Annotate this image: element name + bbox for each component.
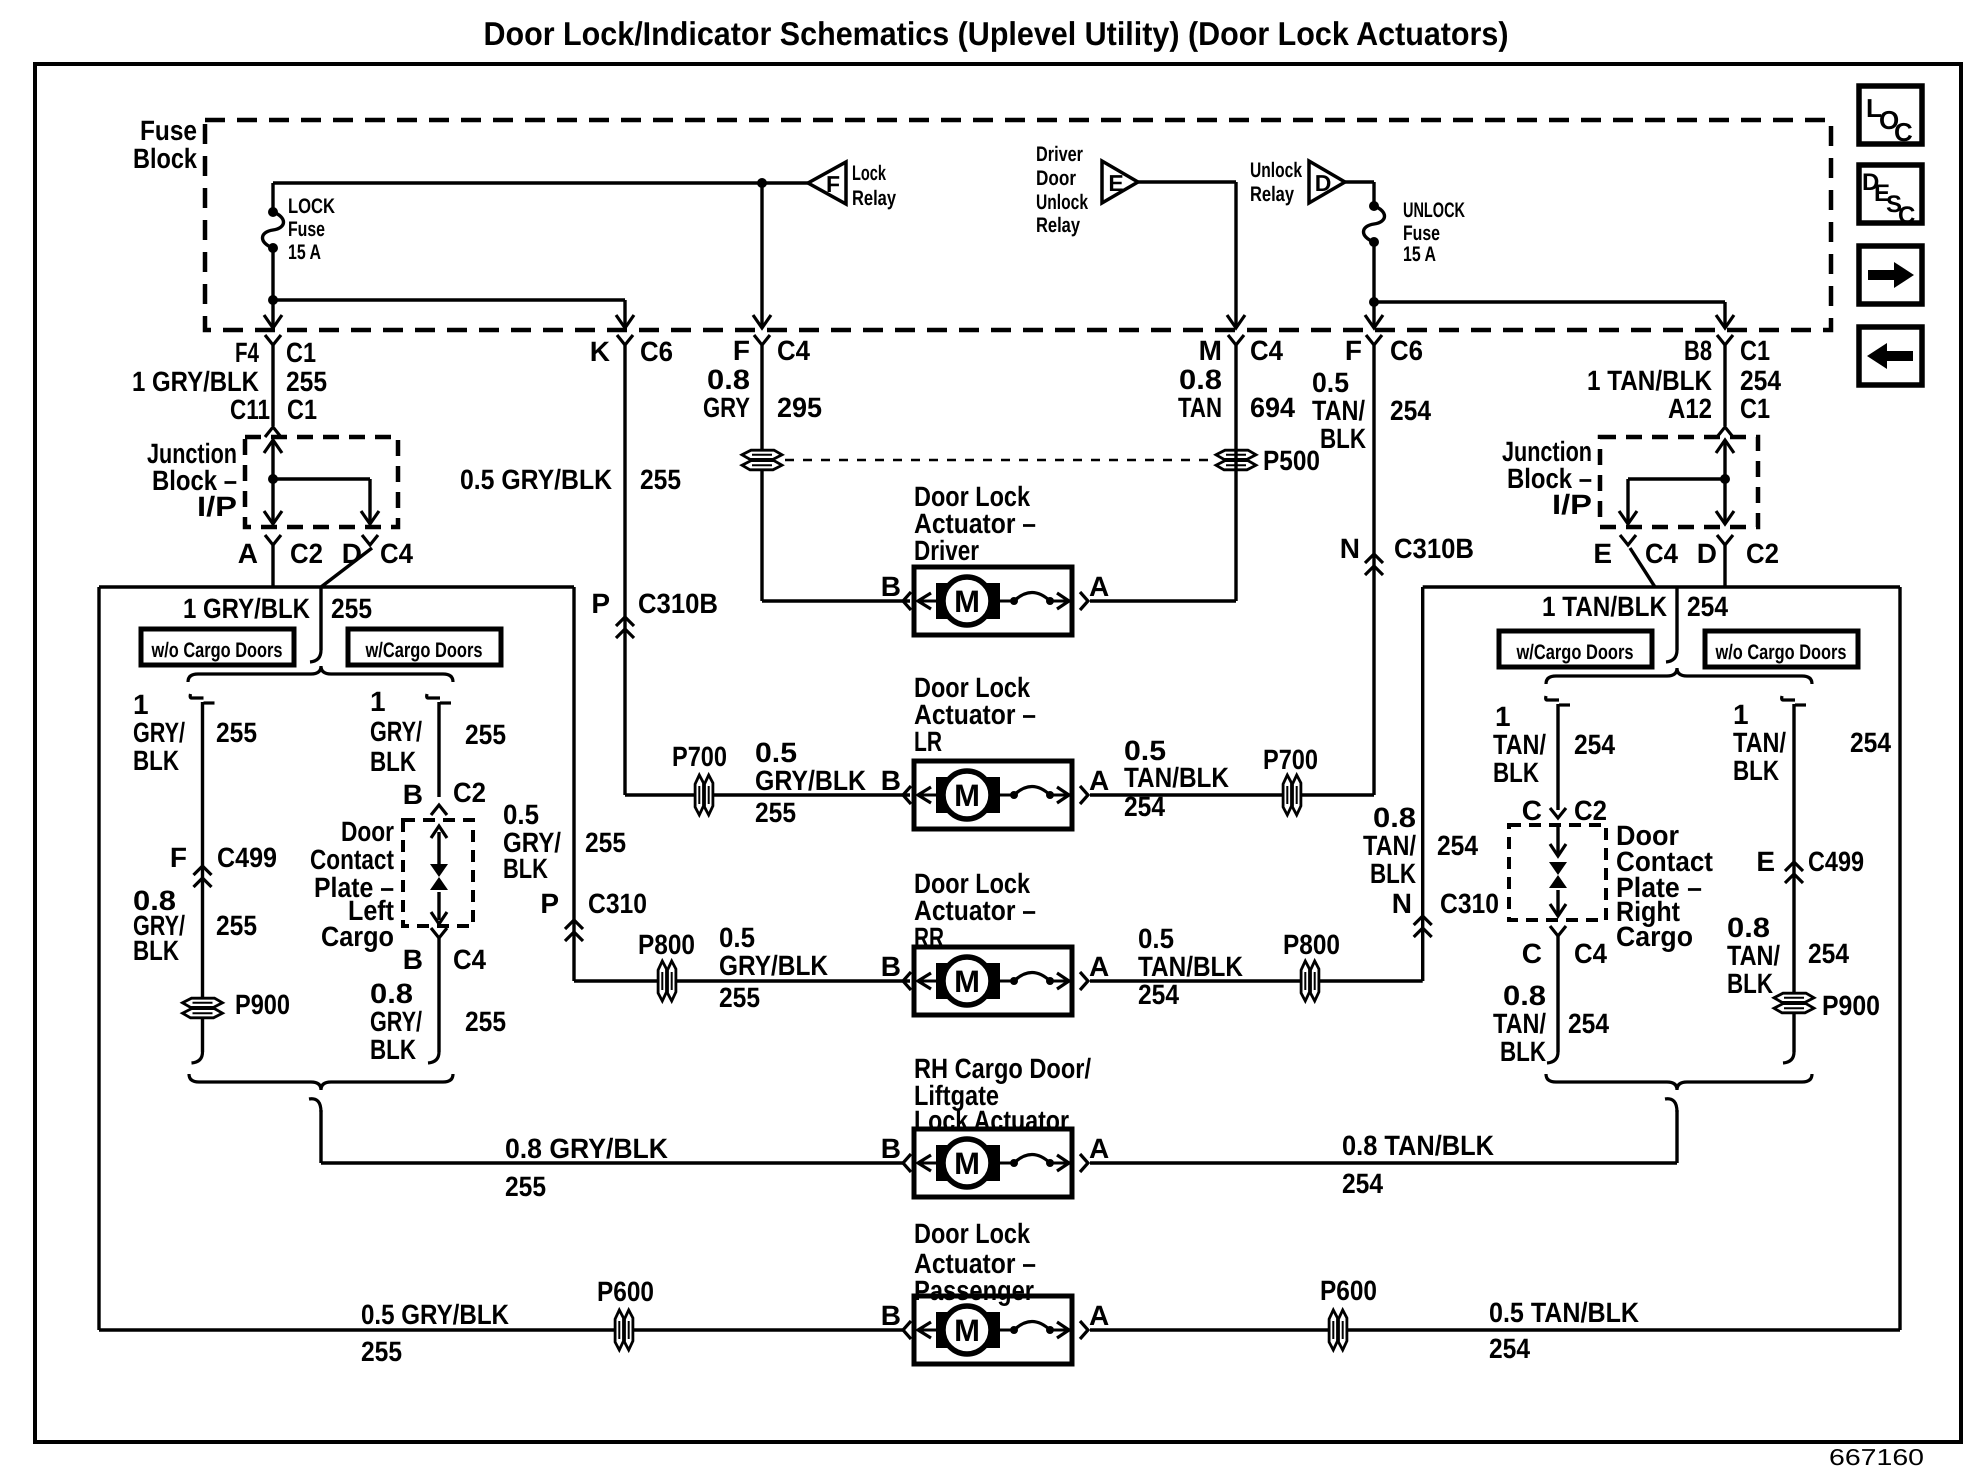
svg-text:C499: C499 — [217, 842, 277, 873]
svg-text:BLK: BLK — [133, 745, 179, 776]
svg-text:GRY/: GRY/ — [370, 716, 422, 747]
svg-text:295: 295 — [777, 392, 822, 423]
svg-text:C4: C4 — [1250, 335, 1283, 366]
svg-text:A: A — [238, 538, 258, 569]
svg-text:Cargo: Cargo — [1616, 921, 1693, 952]
svg-text:C310B: C310B — [638, 588, 718, 619]
svg-text:BLK: BLK — [1493, 757, 1539, 788]
svg-text:TAN: TAN — [1178, 392, 1222, 423]
svg-text:254: 254 — [1740, 365, 1781, 396]
svg-text:GRY: GRY — [703, 392, 750, 423]
svg-text:B: B — [881, 951, 901, 982]
svg-text:0.8 GRY/BLK: 0.8 GRY/BLK — [505, 1133, 668, 1164]
svg-text:w/Cargo Doors: w/Cargo Doors — [1516, 641, 1634, 664]
svg-text:Relay: Relay — [1250, 183, 1294, 206]
svg-text:BLK: BLK — [1733, 755, 1779, 786]
svg-text:GRY/: GRY/ — [370, 1006, 422, 1037]
svg-text:Fuse: Fuse — [288, 218, 325, 241]
svg-text:254: 254 — [1574, 729, 1615, 760]
svg-text:255: 255 — [216, 717, 257, 748]
svg-text:255: 255 — [585, 827, 626, 858]
svg-text:Door: Door — [1036, 167, 1076, 190]
svg-text:B: B — [881, 1133, 901, 1164]
svg-text:C6: C6 — [1390, 335, 1423, 366]
svg-text:P800: P800 — [1283, 929, 1340, 960]
svg-text:C11: C11 — [230, 394, 270, 425]
svg-text:254: 254 — [1138, 979, 1179, 1010]
svg-text:TAN/: TAN/ — [1312, 395, 1365, 426]
svg-text:P900: P900 — [1822, 990, 1880, 1021]
svg-text:C4: C4 — [1574, 938, 1607, 969]
svg-text:Unlock: Unlock — [1036, 191, 1088, 214]
svg-text:Door: Door — [341, 816, 394, 847]
svg-text:w/Cargo Doors: w/Cargo Doors — [365, 639, 483, 662]
svg-text:F: F — [826, 171, 840, 197]
svg-text:A: A — [1089, 1133, 1109, 1164]
svg-text:0.5 GRY/BLK: 0.5 GRY/BLK — [460, 464, 612, 495]
svg-text:LOCK: LOCK — [288, 195, 335, 218]
svg-text:Block: Block — [133, 143, 197, 174]
svg-text:0.8: 0.8 — [1179, 364, 1222, 395]
svg-text:Door Lock: Door Lock — [914, 1218, 1030, 1249]
svg-text:Driver: Driver — [914, 535, 979, 566]
svg-text:I/P: I/P — [1552, 489, 1592, 520]
svg-text:Passenger: Passenger — [914, 1275, 1034, 1306]
svg-text:P600: P600 — [597, 1276, 654, 1307]
svg-text:F: F — [733, 335, 750, 366]
svg-text:I/P: I/P — [197, 491, 237, 522]
svg-text:255: 255 — [361, 1336, 402, 1367]
svg-text:B: B — [403, 944, 423, 975]
svg-text:w/o Cargo Doors: w/o Cargo Doors — [151, 639, 283, 662]
svg-text:Fuse: Fuse — [140, 115, 197, 146]
svg-text:255: 255 — [640, 464, 681, 495]
svg-text:A12: A12 — [1668, 393, 1712, 424]
svg-text:BLK: BLK — [133, 935, 179, 966]
svg-text:254: 254 — [1390, 395, 1431, 426]
svg-text:M: M — [1199, 335, 1222, 366]
svg-text:C4: C4 — [777, 335, 810, 366]
svg-text:RR: RR — [914, 922, 944, 953]
svg-text:C1: C1 — [1740, 335, 1770, 366]
svg-text:BLK: BLK — [1370, 858, 1416, 889]
svg-text:P700: P700 — [672, 741, 727, 772]
svg-text:C310B: C310B — [1394, 533, 1474, 564]
svg-text:BLK: BLK — [370, 746, 416, 777]
svg-text:0.5 GRY/BLK: 0.5 GRY/BLK — [361, 1299, 509, 1330]
svg-text:15 A: 15 A — [1403, 243, 1436, 266]
svg-text:B8: B8 — [1684, 335, 1712, 366]
svg-text:N: N — [1392, 888, 1412, 919]
svg-text:LR: LR — [914, 726, 942, 757]
svg-text:254: 254 — [1489, 1333, 1530, 1364]
svg-text:254: 254 — [1687, 591, 1728, 622]
svg-text:BLK: BLK — [503, 853, 548, 884]
svg-text:C2: C2 — [453, 777, 486, 808]
svg-text:TAN/BLK: TAN/BLK — [1138, 951, 1243, 982]
svg-text:254: 254 — [1808, 938, 1849, 969]
svg-text:Lock Actuator: Lock Actuator — [914, 1105, 1069, 1136]
svg-text:0.5: 0.5 — [755, 737, 797, 768]
svg-text:0.5: 0.5 — [719, 922, 755, 953]
svg-text:255: 255 — [755, 797, 796, 828]
svg-text:BLK: BLK — [1500, 1036, 1546, 1067]
svg-text:255: 255 — [465, 719, 506, 750]
svg-text:C1: C1 — [1740, 393, 1770, 424]
svg-text:1: 1 — [133, 689, 149, 720]
svg-text:M: M — [954, 584, 980, 619]
svg-text:Cargo: Cargo — [321, 921, 394, 952]
svg-text:P700: P700 — [1263, 744, 1318, 775]
svg-text:255: 255 — [465, 1006, 506, 1037]
svg-text:255: 255 — [216, 910, 257, 941]
svg-text:Unlock: Unlock — [1250, 159, 1302, 182]
svg-text:0.5 TAN/BLK: 0.5 TAN/BLK — [1489, 1297, 1639, 1328]
svg-text:D: D — [1315, 170, 1332, 196]
svg-text:C2: C2 — [1746, 538, 1779, 569]
svg-text:P600: P600 — [1320, 1275, 1377, 1306]
svg-text:C1: C1 — [286, 337, 316, 368]
svg-text:Driver: Driver — [1036, 143, 1083, 166]
svg-text:A: A — [1089, 951, 1109, 982]
svg-text:P500: P500 — [1263, 445, 1320, 476]
svg-text:254: 254 — [1850, 727, 1891, 758]
svg-text:1 TAN/BLK: 1 TAN/BLK — [1587, 365, 1712, 396]
svg-text:Lock: Lock — [852, 162, 886, 185]
svg-text:BLK: BLK — [1320, 423, 1366, 454]
svg-text:A: A — [1089, 1300, 1109, 1331]
svg-text:C: C — [1894, 117, 1913, 147]
svg-text:TAN/: TAN/ — [1363, 830, 1416, 861]
svg-text:C4: C4 — [453, 944, 486, 975]
svg-text:F: F — [1345, 335, 1362, 366]
svg-text:0.5: 0.5 — [503, 799, 539, 830]
svg-text:A: A — [1089, 571, 1109, 602]
svg-text:C499: C499 — [1808, 846, 1864, 877]
svg-text:UNLOCK: UNLOCK — [1403, 199, 1465, 222]
svg-text:1: 1 — [370, 686, 386, 717]
svg-text:F: F — [170, 842, 187, 873]
svg-text:N: N — [1340, 533, 1360, 564]
svg-text:C6: C6 — [640, 336, 673, 367]
svg-text:F4: F4 — [235, 337, 259, 368]
svg-text:Contact: Contact — [310, 844, 394, 875]
svg-text:E: E — [1756, 846, 1775, 877]
svg-text:K: K — [590, 336, 610, 367]
svg-text:B: B — [881, 571, 901, 602]
svg-text:15 A: 15 A — [288, 241, 321, 264]
svg-text:E: E — [1108, 170, 1123, 196]
svg-text:B: B — [881, 765, 901, 796]
svg-text:Fuse: Fuse — [1403, 222, 1440, 245]
svg-text:667160: 667160 — [1829, 1444, 1924, 1470]
svg-text:GRY/: GRY/ — [133, 717, 185, 748]
svg-text:C1: C1 — [287, 394, 317, 425]
svg-text:P: P — [540, 888, 559, 919]
svg-text:C: C — [1898, 202, 1915, 229]
svg-text:M: M — [954, 964, 980, 999]
svg-text:Relay: Relay — [852, 187, 896, 210]
svg-text:1: 1 — [1495, 701, 1511, 732]
svg-text:GRY/BLK: GRY/BLK — [755, 765, 866, 796]
svg-text:A: A — [1089, 765, 1109, 796]
svg-text:1 GRY/BLK: 1 GRY/BLK — [132, 366, 259, 397]
svg-text:255: 255 — [719, 982, 760, 1013]
svg-text:w/o Cargo Doors: w/o Cargo Doors — [1715, 641, 1847, 664]
svg-text:694: 694 — [1250, 392, 1295, 423]
svg-text:M: M — [954, 1313, 980, 1348]
svg-text:254: 254 — [1342, 1168, 1383, 1199]
svg-text:TAN/: TAN/ — [1727, 940, 1780, 971]
svg-text:C2: C2 — [1574, 795, 1607, 826]
svg-text:BLK: BLK — [1727, 968, 1773, 999]
svg-text:C310: C310 — [588, 888, 647, 919]
svg-text:M: M — [954, 778, 980, 813]
svg-text:M: M — [954, 1146, 980, 1181]
svg-text:0.5: 0.5 — [1312, 367, 1349, 398]
svg-text:TAN/BLK: TAN/BLK — [1124, 762, 1229, 793]
svg-text:254: 254 — [1568, 1008, 1609, 1039]
svg-text:B: B — [881, 1300, 901, 1331]
svg-text:0.8: 0.8 — [707, 364, 750, 395]
svg-text:0.8: 0.8 — [370, 978, 413, 1009]
svg-text:E: E — [1593, 538, 1612, 569]
svg-text:TAN/: TAN/ — [1733, 727, 1786, 758]
svg-text:1 GRY/BLK: 1 GRY/BLK — [183, 593, 310, 624]
svg-text:TAN/: TAN/ — [1493, 1008, 1546, 1039]
svg-text:P: P — [591, 588, 610, 619]
svg-text:C4: C4 — [380, 538, 413, 569]
svg-text:D: D — [1697, 538, 1717, 569]
svg-text:1 TAN/BLK: 1 TAN/BLK — [1542, 591, 1667, 622]
svg-text:C4: C4 — [1645, 538, 1678, 569]
svg-text:P900: P900 — [235, 989, 290, 1020]
svg-text:BLK: BLK — [370, 1034, 416, 1065]
svg-text:0.8 TAN/BLK: 0.8 TAN/BLK — [1342, 1130, 1494, 1161]
svg-text:254: 254 — [1124, 791, 1165, 822]
svg-text:GRY/BLK: GRY/BLK — [719, 950, 828, 981]
svg-text:C310: C310 — [1440, 888, 1499, 919]
svg-text:P800: P800 — [638, 929, 695, 960]
svg-text:255: 255 — [331, 593, 372, 624]
svg-text:255: 255 — [286, 366, 327, 397]
svg-text:TAN/: TAN/ — [1493, 729, 1546, 760]
svg-text:B: B — [403, 779, 423, 810]
svg-text:0.8: 0.8 — [1503, 980, 1546, 1011]
svg-text:0.8: 0.8 — [1727, 912, 1770, 943]
svg-text:Relay: Relay — [1036, 214, 1080, 237]
svg-text:C: C — [1522, 795, 1542, 826]
svg-text:C: C — [1522, 938, 1542, 969]
svg-text:Door Lock/Indicator Schematics: Door Lock/Indicator Schematics (Uplevel … — [484, 15, 1509, 52]
svg-text:254: 254 — [1437, 830, 1478, 861]
svg-text:0.5: 0.5 — [1138, 923, 1174, 954]
svg-text:255: 255 — [505, 1171, 546, 1202]
svg-text:1: 1 — [1733, 699, 1749, 730]
svg-text:C2: C2 — [290, 538, 323, 569]
svg-text:0.8: 0.8 — [1373, 802, 1416, 833]
